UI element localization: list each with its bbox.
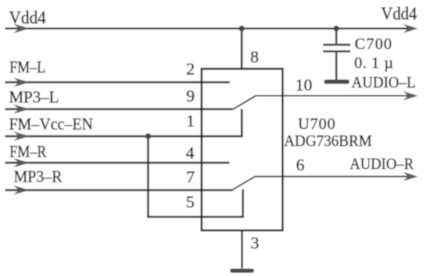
arrow FM-R xyxy=(14,158,30,167)
svg-text:FM–L: FM–L xyxy=(10,58,46,77)
arrow FM-Vcc-EN xyxy=(14,132,30,141)
svg-text:3: 3 xyxy=(251,234,260,253)
svg-text:MP3–L: MP3–L xyxy=(9,88,59,107)
node junction FM-Vcc-EN branch xyxy=(145,133,151,139)
svg-text:4: 4 xyxy=(186,144,195,163)
arrow AUDIO-L xyxy=(403,91,418,100)
wire pin 3 to ground xyxy=(241,230,243,268)
svg-text:1: 1 xyxy=(186,112,195,131)
svg-text:9: 9 xyxy=(186,87,195,106)
svg-text:5: 5 xyxy=(186,193,195,212)
node junction rail/C700 xyxy=(333,26,339,32)
wire MP3-L to pin 9 stub xyxy=(5,108,233,110)
wire FM-Vcc-EN to pin 1 and switch1 control xyxy=(5,109,242,136)
arrow FM-L xyxy=(14,78,30,87)
svg-text:AUDIO–L: AUDIO–L xyxy=(352,75,416,92)
svg-text:0. 1 µ: 0. 1 µ xyxy=(354,55,393,72)
IC U700 body (dual SPDT switch) xyxy=(202,69,283,231)
svg-text:AUDIO–R: AUDIO–R xyxy=(350,156,414,173)
svg-text:ADG736BRM: ADG736BRM xyxy=(284,133,372,150)
svg-text:C700: C700 xyxy=(355,36,392,53)
svg-text:Vdd4: Vdd4 xyxy=(9,8,46,28)
ground (below pin 3) xyxy=(230,269,254,273)
arrow MP3-R xyxy=(14,185,30,194)
svg-text:MP3–R: MP3–R xyxy=(14,167,63,186)
arrow Vdd4 right xyxy=(403,24,418,33)
wire FM-L to pin 2 stub xyxy=(5,81,230,83)
svg-text:2: 2 xyxy=(186,60,195,79)
wire MP3-R to pin 7 stub xyxy=(5,189,233,191)
node junction rail/pin8 xyxy=(239,26,245,32)
svg-text:6: 6 xyxy=(296,156,305,175)
wire switch1 arm to AUDIO-L output xyxy=(233,96,409,110)
svg-text:7: 7 xyxy=(186,168,195,187)
wire Vdd4 top rail xyxy=(5,28,409,30)
ground (below C700) xyxy=(324,80,350,84)
svg-text:8: 8 xyxy=(250,48,259,67)
svg-text:10: 10 xyxy=(295,76,312,95)
arrow AUDIO-R xyxy=(403,172,418,181)
capacitor C700 xyxy=(323,29,350,80)
arrow Vdd4 left xyxy=(14,24,30,33)
wire switch2 arm to AUDIO-R output xyxy=(233,177,409,190)
wire pin 8 drop from rail to IC xyxy=(241,29,243,69)
svg-text:U700: U700 xyxy=(298,116,335,133)
arrow MP3-L xyxy=(14,104,30,113)
svg-text:FM–Vcc–EN: FM–Vcc–EN xyxy=(9,115,93,134)
svg-text:Vdd4: Vdd4 xyxy=(381,4,417,24)
wire FM-Vcc-EN branch to pin 5 and switch2 control xyxy=(148,136,243,217)
wire FM-R to pin 4 stub xyxy=(5,162,229,164)
svg-text:FM–R: FM–R xyxy=(10,142,48,161)
